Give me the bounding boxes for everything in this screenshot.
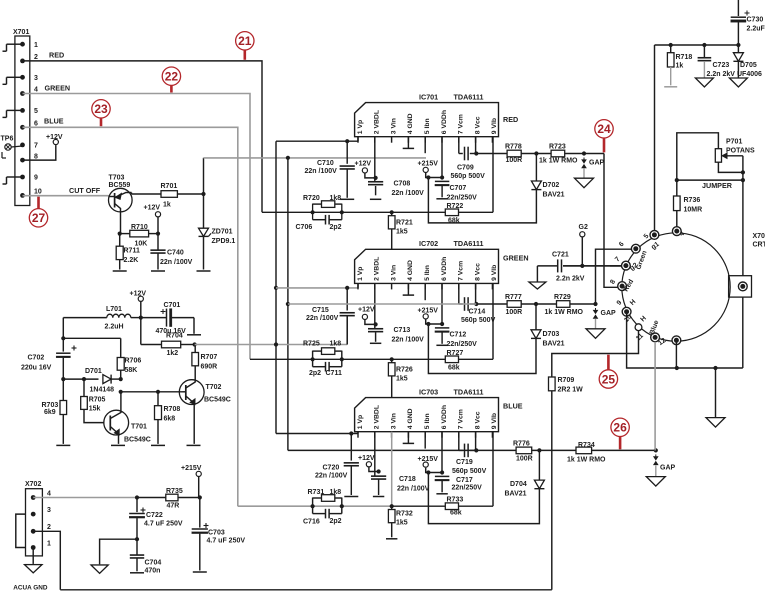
svg-text:D705: D705 <box>740 62 757 69</box>
svg-text:R726: R726 <box>396 367 413 374</box>
svg-text:1k5: 1k5 <box>396 376 408 383</box>
svg-text:1k2: 1k2 <box>167 350 179 357</box>
svg-text:C718: C718 <box>399 476 416 483</box>
svg-text:27: 27 <box>32 211 46 225</box>
svg-text:470n: 470n <box>145 568 161 575</box>
svg-text:R705: R705 <box>89 397 106 404</box>
svg-text:100R: 100R <box>506 157 523 164</box>
svg-text:C717: C717 <box>456 477 473 484</box>
svg-text:100R: 100R <box>506 309 523 316</box>
svg-text:5 Ibn: 5 Ibn <box>424 118 431 134</box>
svg-text:C714: C714 <box>469 309 486 316</box>
svg-text:P701: P701 <box>726 139 742 146</box>
svg-text:X703: X703 <box>753 233 765 240</box>
svg-text:ACUA GND: ACUA GND <box>13 585 48 592</box>
svg-text:D704: D704 <box>510 481 527 488</box>
svg-text:BAV21: BAV21 <box>543 341 565 348</box>
svg-text:24: 24 <box>597 122 611 136</box>
svg-text:R776: R776 <box>513 440 530 447</box>
svg-text:+12V: +12V <box>358 455 375 462</box>
svg-text:CRT: CRT <box>753 242 765 249</box>
svg-text:+215V: +215V <box>418 160 439 167</box>
svg-text:X702: X702 <box>25 481 41 488</box>
svg-text:2 VBDL: 2 VBDL <box>374 110 381 134</box>
svg-text:2.2K: 2.2K <box>124 257 139 264</box>
svg-text:690R: 690R <box>201 364 218 371</box>
svg-text:6 VDDh: 6 VDDh <box>441 110 448 134</box>
svg-text:BAV21: BAV21 <box>543 192 565 199</box>
svg-text:TDA6111: TDA6111 <box>454 92 484 101</box>
svg-text:58K: 58K <box>125 367 138 374</box>
svg-text:15k: 15k <box>89 406 101 413</box>
svg-text:R725: R725 <box>303 341 320 348</box>
svg-text:RED: RED <box>503 115 518 124</box>
svg-text:1k8: 1k8 <box>330 341 342 348</box>
svg-text:T701: T701 <box>131 424 147 431</box>
svg-text:C721: C721 <box>552 252 569 259</box>
svg-text:68k: 68k <box>450 510 462 517</box>
svg-text:3: 3 <box>34 75 38 82</box>
svg-text:2: 2 <box>47 524 51 531</box>
svg-text:1 Vp: 1 Vp <box>357 267 364 281</box>
svg-text:R721: R721 <box>396 220 413 227</box>
svg-text:3 Vin: 3 Vin <box>390 413 397 429</box>
svg-text:560p 500V: 560p 500V <box>452 468 487 475</box>
svg-text:C740: C740 <box>167 250 184 257</box>
svg-text:D701: D701 <box>85 368 102 375</box>
svg-text:10: 10 <box>34 189 42 196</box>
svg-text:C703: C703 <box>208 530 225 537</box>
svg-text:6k9: 6k9 <box>44 409 56 416</box>
svg-text:C713: C713 <box>394 327 411 334</box>
svg-text:R729: R729 <box>554 294 571 301</box>
svg-text:C708: C708 <box>394 181 411 188</box>
svg-text:C730: C730 <box>747 17 764 24</box>
svg-text:C715: C715 <box>312 307 329 314</box>
svg-text:C716: C716 <box>303 518 320 525</box>
svg-text:C711: C711 <box>326 370 342 377</box>
svg-text:1k 1W RMO: 1k 1W RMO <box>567 456 606 463</box>
svg-text:4: 4 <box>47 490 51 497</box>
svg-text:POTANS: POTANS <box>726 147 755 154</box>
svg-text:3 Vin: 3 Vin <box>390 265 397 281</box>
svg-text:R777: R777 <box>505 294 522 301</box>
svg-text:JUMPER: JUMPER <box>702 181 733 190</box>
svg-text:C712: C712 <box>450 332 467 339</box>
svg-text:TP6: TP6 <box>1 136 14 143</box>
svg-text:X701: X701 <box>13 29 29 36</box>
svg-text:1k 1W RMO: 1k 1W RMO <box>539 157 578 164</box>
svg-text:C707: C707 <box>450 185 467 192</box>
svg-text:4.7 uF 250V: 4.7 uF 250V <box>207 538 246 545</box>
svg-text:R736: R736 <box>684 197 701 204</box>
svg-text:1k8: 1k8 <box>330 195 342 202</box>
svg-text:+12V: +12V <box>144 205 161 212</box>
svg-text:22n/250V: 22n/250V <box>447 195 478 202</box>
svg-text:+12V: +12V <box>358 307 375 314</box>
svg-text:10MR: 10MR <box>684 207 703 214</box>
svg-text:BAV21: BAV21 <box>505 491 527 498</box>
svg-text:8 Vcc: 8 Vcc <box>474 411 481 429</box>
svg-text:GREEN: GREEN <box>503 253 529 262</box>
svg-text:L701: L701 <box>106 306 122 313</box>
svg-text:R727: R727 <box>447 350 464 357</box>
svg-text:100R: 100R <box>516 456 533 463</box>
svg-text:R718: R718 <box>676 54 693 61</box>
svg-text:D702: D702 <box>543 182 560 189</box>
svg-text:3: 3 <box>47 507 51 514</box>
svg-text:5 Ibn: 5 Ibn <box>424 265 431 281</box>
svg-text:22: 22 <box>165 70 179 84</box>
svg-text:8 Vcc: 8 Vcc <box>474 263 481 281</box>
svg-text:ZPD9.1: ZPD9.1 <box>212 238 236 245</box>
svg-text:6 VDDh: 6 VDDh <box>441 257 448 281</box>
svg-text:C710: C710 <box>317 160 334 167</box>
svg-text:4 GND: 4 GND <box>407 408 414 429</box>
svg-text:T703: T703 <box>109 174 125 181</box>
svg-text:7 Vcm: 7 Vcm <box>458 409 465 429</box>
svg-text:1k8: 1k8 <box>330 489 342 496</box>
svg-text:2.2n 2kV: 2.2n 2kV <box>556 276 585 283</box>
svg-text:R710: R710 <box>131 224 148 231</box>
svg-text:1k: 1k <box>676 63 684 70</box>
svg-text:7 Vcm: 7 Vcm <box>458 261 465 281</box>
svg-text:+215V: +215V <box>418 456 439 463</box>
svg-text:7: 7 <box>34 143 38 150</box>
svg-text:GAP: GAP <box>601 310 617 317</box>
svg-text:560p 500V: 560p 500V <box>461 317 496 324</box>
svg-text:R735: R735 <box>166 488 183 495</box>
svg-text:5 Ibn: 5 Ibn <box>424 413 431 429</box>
svg-text:CUT OFF: CUT OFF <box>69 186 101 195</box>
svg-text:GREEN: GREEN <box>45 84 71 93</box>
svg-text:C723: C723 <box>713 62 730 69</box>
svg-text:22n /100V: 22n /100V <box>306 315 339 322</box>
svg-text:R701: R701 <box>161 183 178 190</box>
svg-text:22n /100V: 22n /100V <box>392 190 425 197</box>
svg-text:G2: G2 <box>579 224 588 231</box>
svg-text:R704: R704 <box>166 333 183 340</box>
svg-text:23: 23 <box>94 102 108 116</box>
svg-text:2.2uH: 2.2uH <box>105 324 124 331</box>
svg-text:R709: R709 <box>558 377 575 384</box>
svg-text:C720: C720 <box>323 465 340 472</box>
svg-text:2p2: 2p2 <box>330 518 342 525</box>
svg-text:9 Vlb: 9 Vlb <box>491 118 498 134</box>
svg-text:1 Vp: 1 Vp <box>357 415 364 429</box>
svg-text:220u 16V: 220u 16V <box>21 365 52 372</box>
svg-text:1: 1 <box>47 540 51 547</box>
svg-text:8 Vcc: 8 Vcc <box>474 116 481 134</box>
svg-text:C722: C722 <box>146 512 163 519</box>
svg-text:R734: R734 <box>578 442 595 449</box>
svg-text:TDA6111: TDA6111 <box>454 239 484 248</box>
svg-text:C701: C701 <box>164 302 181 309</box>
svg-text:1N4148: 1N4148 <box>90 387 115 394</box>
svg-text:68k: 68k <box>448 218 460 225</box>
svg-text:4.7 uF 250V: 4.7 uF 250V <box>144 521 183 528</box>
svg-text:9 Vlb: 9 Vlb <box>491 413 498 429</box>
svg-text:C719: C719 <box>456 459 473 466</box>
svg-text:R731: R731 <box>308 489 325 496</box>
svg-text:22n /100V: 22n /100V <box>160 259 193 266</box>
svg-text:9: 9 <box>34 175 38 182</box>
svg-text:6k8: 6k8 <box>164 416 176 423</box>
svg-text:47R: 47R <box>167 502 180 509</box>
svg-text:BLUE: BLUE <box>503 402 523 411</box>
svg-text:C706: C706 <box>296 224 313 231</box>
svg-text:2 VBDL: 2 VBDL <box>374 257 381 281</box>
svg-text:22n /100V: 22n /100V <box>392 337 425 344</box>
svg-text:22n /100V: 22n /100V <box>305 168 338 175</box>
svg-text:1k5: 1k5 <box>396 520 408 527</box>
svg-text:R706: R706 <box>125 358 142 365</box>
svg-text:UF4006: UF4006 <box>737 71 762 78</box>
svg-text:RED: RED <box>49 51 64 60</box>
svg-text:2: 2 <box>34 54 38 61</box>
svg-text:4 GND: 4 GND <box>407 260 414 281</box>
svg-text:GAP: GAP <box>660 465 676 472</box>
svg-text:560p 500V: 560p 500V <box>451 173 486 180</box>
svg-text:R722: R722 <box>447 203 464 210</box>
svg-text:1k: 1k <box>163 202 171 209</box>
svg-text:6: 6 <box>34 121 38 128</box>
svg-text:R711: R711 <box>124 248 140 255</box>
svg-text:C702: C702 <box>28 355 45 362</box>
svg-text:26: 26 <box>613 421 627 435</box>
svg-text:+12V: +12V <box>355 161 372 168</box>
svg-text:9 Vlb: 9 Vlb <box>491 265 498 281</box>
svg-text:+12V: +12V <box>130 291 147 298</box>
svg-text:2p2: 2p2 <box>330 224 342 231</box>
svg-text:BLUE: BLUE <box>44 117 64 126</box>
svg-text:IC703: IC703 <box>419 387 438 396</box>
svg-text:T702: T702 <box>206 384 222 391</box>
svg-text:R707: R707 <box>201 354 218 361</box>
svg-text:21: 21 <box>238 34 252 48</box>
svg-text:7 Vcm: 7 Vcm <box>458 114 465 134</box>
svg-text:R732: R732 <box>396 511 413 518</box>
svg-text:BC549C: BC549C <box>124 437 151 444</box>
svg-text:D703: D703 <box>543 331 560 338</box>
svg-text:4: 4 <box>34 87 38 94</box>
svg-text:68k: 68k <box>448 365 460 372</box>
svg-text:1: 1 <box>34 42 38 49</box>
svg-text:ZD701: ZD701 <box>212 229 233 236</box>
svg-text:IC702: IC702 <box>419 239 438 248</box>
svg-text:1k 1W RMO: 1k 1W RMO <box>545 309 584 316</box>
svg-text:IC701: IC701 <box>419 92 438 101</box>
svg-text:1 Vp: 1 Vp <box>357 120 364 134</box>
svg-text:3 Vin: 3 Vin <box>390 118 397 134</box>
svg-text:R778: R778 <box>505 144 522 151</box>
svg-text:10K: 10K <box>135 241 148 248</box>
svg-text:25: 25 <box>602 372 616 386</box>
svg-text:22n/250V: 22n/250V <box>452 485 483 492</box>
svg-text:BC559: BC559 <box>109 182 131 189</box>
svg-text:R720: R720 <box>303 195 320 202</box>
svg-text:22n /100V: 22n /100V <box>397 486 430 493</box>
svg-text:GAP: GAP <box>589 160 605 167</box>
svg-text:R708: R708 <box>164 406 181 413</box>
svg-text:C704: C704 <box>145 560 162 567</box>
svg-text:5: 5 <box>34 108 38 115</box>
svg-text:2.2n 2kV: 2.2n 2kV <box>707 71 736 78</box>
svg-text:+215V: +215V <box>418 307 439 314</box>
svg-text:2p2: 2p2 <box>309 370 321 377</box>
svg-text:4 GND: 4 GND <box>407 113 414 134</box>
svg-text:2 VBDL: 2 VBDL <box>374 405 381 429</box>
svg-text:22n/250V: 22n/250V <box>447 341 478 348</box>
svg-text:BC549C: BC549C <box>204 397 231 404</box>
svg-text:22n /100V: 22n /100V <box>315 473 348 480</box>
svg-text:2.2uF: 2.2uF <box>747 26 765 33</box>
svg-text:R733: R733 <box>447 497 464 504</box>
svg-text:R723: R723 <box>549 144 566 151</box>
svg-text:C709: C709 <box>457 165 474 172</box>
svg-text:6 VDDh: 6 VDDh <box>441 405 448 429</box>
svg-text:TDA6111: TDA6111 <box>454 387 484 396</box>
svg-text:8: 8 <box>34 153 38 160</box>
svg-text:2R2 1W: 2R2 1W <box>558 387 584 394</box>
svg-text:1k5: 1k5 <box>396 229 408 236</box>
